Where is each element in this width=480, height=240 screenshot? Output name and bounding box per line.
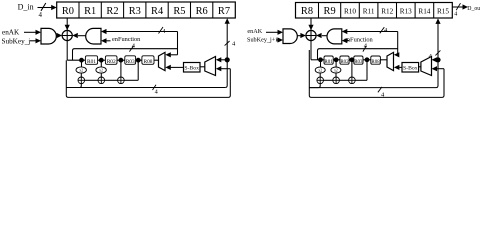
mux2 trapezoid left: [205, 57, 216, 76]
tap wire dot2 to multiplier left: [100, 60, 102, 67]
AND gate right mirrored (enFunction): [327, 29, 342, 44]
svg-text:R12: R12: [381, 7, 393, 15]
slash 4 on bus right: [380, 27, 388, 34]
bus enFunction feedback left (4-bit): [106, 32, 178, 58]
AND gate right input arrowheads: [278, 30, 284, 35]
S-Box right: [402, 63, 419, 73]
svg-text:R01: R01: [87, 59, 96, 65]
wire mux2 to S-Box right: [419, 66, 421, 68]
multiplier ellipse x2 right 2: [331, 67, 341, 73]
F output bus right (y87.6): [309, 87, 436, 89]
svg-text:x2: x2: [334, 69, 338, 73]
S-Box left: [184, 63, 201, 73]
tap wire dot2 to multiplier right: [335, 60, 337, 67]
tap wire dot4 down left: [137, 60, 139, 80]
wire xor row output down-left left: [66, 84, 81, 88]
svg-text:D_in: D_in: [18, 3, 34, 12]
svg-text:R7: R7: [218, 6, 230, 17]
wire multiplier to xor right 1: [319, 73, 321, 77]
register box R01 left: [85, 56, 97, 65]
svg-text:R0: R0: [62, 6, 74, 17]
svg-text:D_out: D_out: [467, 6, 480, 12]
register box R03 right: [354, 56, 363, 65]
wire mux1 output to box R08 left: [154, 59, 159, 61]
register box R08 right: [371, 56, 381, 65]
svg-text:R03: R03: [354, 60, 363, 65]
D_out output label: [452, 3, 480, 17]
svg-text:enAK: enAK: [247, 28, 262, 35]
svg-text:R4: R4: [151, 6, 164, 17]
wire multiplier to xor left 2: [100, 73, 102, 77]
svg-text:SubKey_j: SubKey_j: [2, 38, 31, 46]
svg-text:R6: R6: [196, 6, 208, 17]
svg-text:R5: R5: [173, 6, 185, 17]
svg-text:R3: R3: [129, 6, 141, 17]
mux1 trapezoid right: [387, 52, 394, 70]
recirculation loop wire left: [73, 49, 178, 61]
multiplier ellipse x2 left 2: [96, 67, 106, 73]
tap wire dot1 to multiplier right: [320, 60, 322, 67]
node dots on row right: [318, 57, 323, 62]
tap wire dot4 down right: [366, 60, 368, 81]
svg-text:R15: R15: [437, 7, 449, 15]
register box R03 left: [125, 56, 136, 65]
register box R01 right: [324, 56, 333, 65]
xor chain wires left: [85, 79, 98, 81]
xor row 1 left: [78, 77, 85, 84]
xor row 2 left: [98, 77, 105, 84]
mux2 trapezoid right: [421, 57, 432, 76]
stub frame to mux2 bottom input left: [216, 66, 231, 71]
tap wire dot3 to xor left: [120, 60, 122, 77]
xor row 3 left: [118, 77, 125, 84]
wire multiplier to xor right 2: [335, 73, 337, 77]
wire mirrored AND output to XOR right: [322, 35, 327, 37]
bus enFunction feedback right (4-bit): [347, 32, 399, 58]
AND gate right: [283, 29, 297, 44]
svg-text:4: 4: [155, 88, 159, 95]
svg-text:4: 4: [232, 40, 236, 47]
XOR gate right upper: [306, 30, 316, 40]
svg-text:R02: R02: [340, 60, 349, 65]
enFunction label left: [106, 36, 141, 43]
svg-text:enFunction: enFunction: [344, 37, 374, 44]
feedback wire to R15 right: [435, 18, 440, 87]
slash 4 on loop left: [129, 42, 135, 51]
SubKey_j label left: [2, 38, 37, 46]
svg-text:R08: R08: [371, 60, 380, 65]
register box R08 left: [142, 56, 154, 65]
mirrored AND input arrowheads right: [342, 29, 348, 34]
xor row 3 right: [349, 77, 356, 84]
SubKey_j+1 label right: [247, 37, 278, 44]
svg-text:R10: R10: [344, 7, 356, 15]
wire between row boxes left: [98, 59, 106, 61]
stub frame to mux2 bottom input right: [432, 66, 445, 71]
wire R8 to XOR, down arrow right: [308, 18, 313, 60]
svg-text:R13: R13: [400, 7, 412, 15]
svg-text:R03: R03: [126, 59, 135, 65]
svg-text:4: 4: [39, 11, 43, 19]
svg-text:x2: x2: [99, 69, 103, 73]
register row R0-R7: [57, 2, 236, 18]
svg-text:R9: R9: [324, 6, 336, 17]
node dots on row left: [79, 58, 84, 63]
slash 4 on F output bus right: [378, 87, 385, 99]
recirculation loop wire right: [318, 49, 398, 60]
mirrored AND input arrowheads: [101, 29, 107, 34]
slash 4 on feedback right: [429, 50, 441, 60]
feedback wire to R7 left: [225, 18, 230, 87]
wire multiplier to xor left 1: [80, 73, 82, 77]
xor row 1 right: [317, 77, 324, 84]
F output bus left (y87.5): [66, 87, 225, 89]
stub feedback to mux2 top input left: [216, 57, 227, 62]
svg-text:enAK: enAK: [2, 28, 20, 36]
svg-text:4: 4: [454, 11, 457, 17]
svg-text:R01: R01: [324, 60, 333, 65]
wire XOR down to shift row left: [67, 59, 85, 61]
svg-text:R11: R11: [363, 7, 375, 15]
wire AND1 output to XOR: [56, 35, 57, 37]
register row R8-R15: [296, 3, 453, 19]
svg-text:R2: R2: [106, 6, 118, 17]
wire S-Box output to mux1 left: [165, 65, 183, 70]
xor chain wires right: [324, 79, 333, 81]
wire xor row output down-left right: [309, 84, 320, 88]
svg-text:SubKey_j+1: SubKey_j+1: [247, 37, 278, 44]
XOR gate left upper: [62, 30, 72, 40]
outer loop frame left: [66, 60, 230, 97]
slash 4 on loop right: [363, 42, 368, 51]
svg-text:R1: R1: [84, 6, 96, 17]
AND gate U1 left: [41, 28, 56, 44]
tap wire dot3 to xor right: [351, 60, 353, 77]
register box R02 right: [340, 56, 349, 65]
wire between row boxes right: [333, 59, 340, 61]
svg-text:S-Box: S-Box: [403, 66, 418, 72]
wire mirrored AND output to XOR: [78, 35, 86, 37]
slash 4 on bus left: [159, 27, 167, 35]
wire mux2 to S-Box left: [200, 66, 205, 68]
multiplier ellipse x2 right 1: [315, 67, 325, 73]
svg-text:R8: R8: [301, 6, 313, 17]
node dot on feedback right: [435, 57, 440, 62]
slash 4 on feedback left: [225, 40, 236, 47]
stub feedback to mux2 top input right: [432, 57, 439, 62]
enAK label right: [247, 28, 278, 35]
svg-text:R02: R02: [107, 59, 116, 65]
mux1 trapezoid left: [159, 52, 166, 70]
D_in input label: [18, 3, 57, 20]
wire R0 to XOR, down arrow: [65, 18, 70, 60]
enAK label left: [2, 28, 36, 36]
slash 4 on F output bus left: [153, 85, 159, 96]
tap wire dot1 to multiplier left: [81, 60, 83, 67]
multiplier ellipse x2 left 1: [76, 67, 86, 73]
svg-text:x2: x2: [79, 69, 83, 73]
wire AND output to XOR right: [297, 35, 301, 37]
wire XOR down to shift row right: [311, 59, 324, 61]
svg-text:4: 4: [384, 27, 388, 34]
node dot on feedback left: [225, 57, 230, 62]
enFunction label right: [344, 37, 374, 44]
svg-text:enFunction: enFunction: [112, 36, 141, 43]
AND gate left (enAK & SubKey_j) input arrowheads: [36, 30, 42, 35]
wire S-Box output to mux1 right: [394, 65, 402, 70]
xor row 2 right: [333, 77, 340, 84]
wire mux1 output to box right: [380, 59, 387, 61]
outer loop frame right: [309, 50, 444, 97]
svg-text:R14: R14: [418, 7, 430, 15]
register box R02 left: [105, 56, 117, 65]
svg-text:R08: R08: [144, 59, 153, 65]
svg-text:x2: x2: [318, 69, 322, 73]
AND gate left mirrored (enFunction): [86, 28, 101, 44]
svg-text:S-Box: S-Box: [184, 66, 199, 72]
